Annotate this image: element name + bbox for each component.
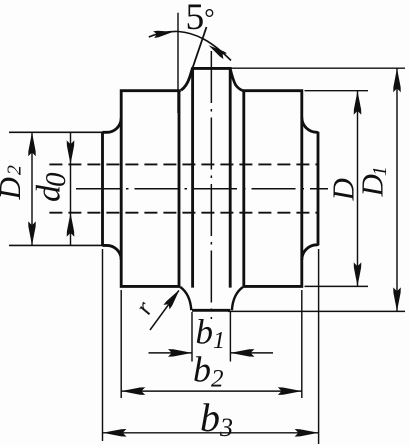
b2 arrow left [121, 387, 145, 395]
angle dimension arc [149, 31, 231, 60]
D extension bottom [305, 285, 369, 287]
hub right face with fillets to rim [302, 117, 318, 260]
rim groove inner wall right [242, 91, 245, 287]
D2 arrow up [28, 132, 36, 156]
b2 extension left [120, 290, 122, 398]
b2 arrow right [278, 387, 302, 395]
taper line 5deg upper-left thin extension [192, 27, 206, 68]
fillet lower-left of ring (radius r) [180, 287, 191, 310]
rim outline left: top edge left part, left edge, bottom edge left part [121, 91, 181, 287]
r leader line [150, 291, 179, 330]
b2 dimension line [121, 390, 302, 392]
svg-text:5°: 5° [186, 0, 215, 38]
D1 extension bottom [228, 310, 405, 312]
b2 extension right [301, 290, 303, 398]
b3 dimension line [103, 432, 319, 434]
D1 arrow up [393, 68, 401, 92]
D arrow up [354, 91, 362, 115]
bore hidden line bottom d0 [49, 212, 318, 214]
b3 arrow right [295, 429, 319, 437]
b1 dimension line left part with arrow [149, 352, 193, 354]
d0 arrow pointing up at bottom bore line [67, 213, 75, 237]
b1 dimension line right part with arrow [230, 352, 273, 354]
b3 arrow left [103, 429, 127, 437]
r leader arrowhead [163, 290, 179, 310]
horizontal axis centerline [76, 188, 328, 190]
D2 extension line top [9, 131, 103, 133]
angle reference vertical line [177, 13, 179, 113]
D1 extension top [232, 67, 406, 69]
D1 arrow down [393, 287, 401, 311]
vertical centerline [210, 51, 212, 319]
center ring (belt rim) top edge and tapered sides [193, 68, 231, 287]
fillet lower-right of ring [232, 287, 243, 310]
D extension top [305, 90, 369, 92]
b3 extension right [318, 249, 320, 444]
taper+fillet upper-left of ring [181, 68, 192, 90]
d0 dimension line [70, 132, 72, 245]
rim groove inner wall left [178, 91, 181, 287]
hub bottom edge + fillet to rim, left [103, 245, 122, 259]
D2 dimension line [31, 132, 33, 245]
angle arc arrowhead at taper line [209, 45, 228, 59]
D dimension line [357, 91, 359, 287]
hub left face [101, 132, 104, 245]
D2 extension line bottom [9, 244, 103, 246]
angle arc arrowhead at vertical line [153, 31, 173, 38]
b1 extension left [191, 312, 193, 362]
hub top edge + fillet to rim, left [103, 118, 122, 132]
taper+fillet upper-right of ring [230, 68, 243, 90]
b1 extension right [229, 312, 231, 362]
d0 arrow pointing down at top bore line [67, 140, 75, 164]
b3 extension left [102, 249, 104, 441]
rim outline right: top edge right part, right edge, bottom edge right part [243, 91, 302, 287]
D2 arrow down [28, 221, 36, 245]
bore hidden line top d0 [49, 163, 318, 165]
D1 dimension line [396, 68, 398, 311]
center ring bottom edge [192, 309, 230, 312]
D arrow down [354, 262, 362, 286]
svg-text:D2: D2 [0, 165, 27, 200]
